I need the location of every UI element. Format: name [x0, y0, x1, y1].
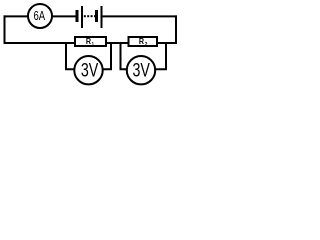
wire middle-right horizontal [157, 42, 177, 44]
voltage source V1 3V [74, 56, 102, 84]
svg-text:R: R [86, 37, 91, 46]
wire branch V2 right (source up to node right of R2) [155, 42, 166, 69]
wire middle-left horizontal [4, 42, 76, 44]
wire branch V1 right (source up to node right of R1) [102, 42, 111, 69]
wire battery to top-right corner [102, 15, 177, 17]
svg-text:6A: 6A [34, 9, 46, 23]
battery B1 [76, 6, 103, 28]
wire right vertical [175, 15, 177, 44]
wire left vertical [4, 15, 6, 44]
resistor R2 [129, 37, 158, 48]
svg-text:2: 2 [145, 42, 148, 48]
wire top-left horizontal [4, 15, 29, 17]
voltage source V2 3V [127, 56, 155, 84]
wire branch V1 left (node left of R1 down to source) [66, 42, 75, 69]
svg-text:3V: 3V [81, 60, 99, 81]
resistor R1 [75, 37, 106, 48]
wire between ammeter and battery [52, 15, 76, 17]
wire branch V2 left (node right of R1 down to source) [121, 42, 128, 69]
wire middle between R1 and R2 [106, 42, 129, 44]
svg-text:1: 1 [92, 42, 94, 48]
svg-text:3V: 3V [133, 60, 151, 81]
svg-text:R: R [139, 37, 144, 46]
ammeter A1 6A [28, 4, 52, 28]
